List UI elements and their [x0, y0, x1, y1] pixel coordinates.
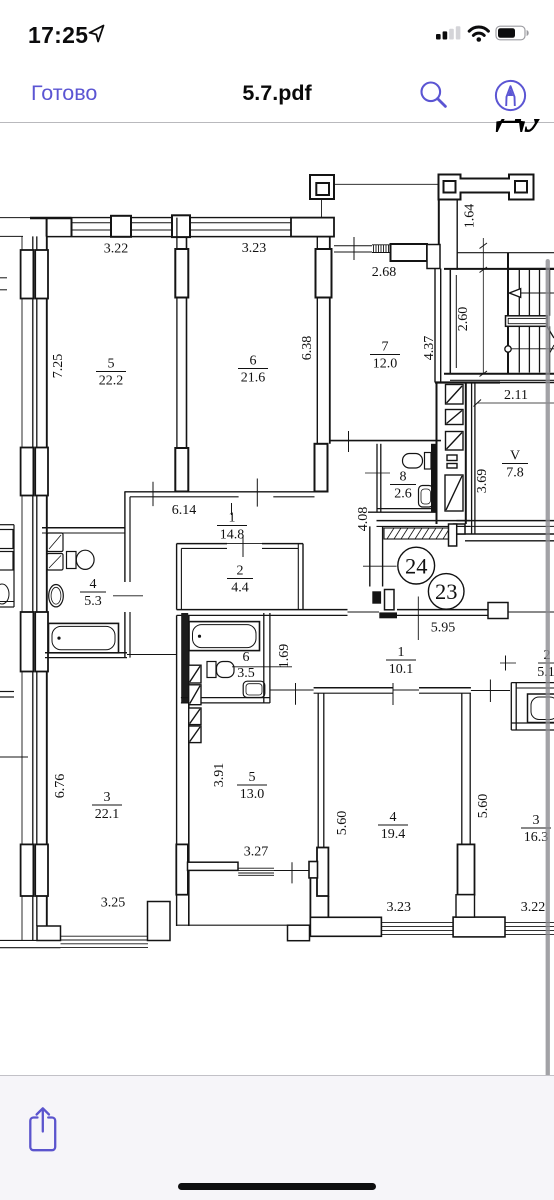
- door opening head room7 top: [334, 245, 372, 247]
- wall block top right of room 6: [291, 218, 334, 237]
- battery: [494, 22, 534, 44]
- svg-text:2.68: 2.68: [372, 265, 397, 280]
- svg-text:12.0: 12.0: [373, 357, 398, 372]
- room 3 bottom-left corner block: [37, 926, 61, 941]
- bathroom 8 right wall solid: [431, 444, 437, 512]
- window room 5 bottom: [238, 867, 274, 869]
- dim tick apt23: [500, 662, 516, 664]
- svg-text:1.69: 1.69: [277, 644, 292, 669]
- svg-text:V: V: [510, 449, 520, 464]
- black pier at hall: [372, 591, 381, 603]
- bathroom 8 left wall: [376, 444, 378, 512]
- window room 3 right: [505, 922, 554, 924]
- corner block top-left: [47, 218, 72, 237]
- lobby left wall: [369, 526, 371, 586]
- room V top wall right part: [500, 382, 554, 384]
- svg-text:6: 6: [243, 650, 250, 665]
- black pier horizontal: [379, 612, 397, 618]
- svg-text:2: 2: [237, 564, 244, 579]
- bathtub B6: [189, 622, 260, 651]
- bathtub apartment 23: [528, 694, 554, 723]
- door head room 3: [127, 654, 177, 656]
- cellular bars: [430, 20, 464, 44]
- home indicator: [178, 1183, 376, 1190]
- svg-text:3.5: 3.5: [237, 666, 255, 681]
- block right of room5 window: [309, 862, 318, 878]
- wall rooms 4/3: [461, 693, 463, 917]
- wall pier lobby top: [391, 244, 428, 261]
- wall between rooms 6 and 7: [316, 237, 318, 444]
- toilet WC6: [207, 662, 216, 678]
- iOS scroll indicator: [546, 259, 550, 1079]
- left wall window boxes row1: [21, 250, 34, 299]
- dim ticks 6.14: [152, 482, 154, 506]
- wall 5/6 pier box lower: [175, 448, 188, 492]
- hatch sill: [372, 245, 390, 253]
- wire top-left exterior wall top line: [0, 217, 30, 219]
- wall pier box room3 right: [176, 844, 188, 894]
- left wall window boxes row4: [21, 844, 34, 896]
- svg-text:3.91: 3.91: [212, 763, 227, 788]
- bathtub B4: [49, 623, 119, 652]
- left edge partial shapes: [0, 277, 7, 279]
- window room 4: [381, 922, 453, 924]
- svg-text:3.27: 3.27: [244, 845, 269, 860]
- svg-text:24: 24: [405, 554, 428, 579]
- share icon: [22, 1100, 66, 1152]
- dim line 3.5: [232, 666, 292, 668]
- dim line 1.64 / 2.60: [482, 238, 484, 374]
- svg-text:19.4: 19.4: [381, 827, 406, 842]
- tick 2.68: [353, 237, 355, 260]
- svg-text:6: 6: [250, 354, 257, 369]
- svg-text:5.95: 5.95: [431, 621, 456, 636]
- dim line 2.11: [477, 402, 554, 404]
- room V bottom wall: [453, 533, 554, 535]
- white mask over letter tops (nav overlap): [440, 113, 554, 119]
- wall top thick segment: [30, 217, 72, 220]
- location arrow icon: [85, 22, 109, 46]
- svg-text:4: 4: [390, 810, 397, 825]
- svg-text:10.1: 10.1: [389, 662, 414, 677]
- block between windows 4 and 3: [453, 917, 505, 937]
- svg-text:4.4: 4.4: [231, 581, 249, 596]
- svg-text:8: 8: [400, 470, 407, 485]
- room 2 top wall: [177, 543, 227, 545]
- svg-text:4: 4: [90, 577, 97, 592]
- wire column K1 to wall: [321, 199, 323, 218]
- svg-text:1: 1: [398, 645, 405, 660]
- svg-text:6.76: 6.76: [53, 774, 68, 799]
- apartment 23 bathroom walls: [510, 683, 512, 730]
- stair start circle: [505, 346, 511, 352]
- room 2 left wall: [176, 544, 178, 610]
- vent shafts lower stack: [189, 665, 201, 742]
- entrance threshold hatch: [384, 528, 449, 539]
- svg-text:2.11: 2.11: [504, 388, 528, 403]
- svg-text:22.2: 22.2: [99, 374, 124, 389]
- door ticks corridor: [295, 683, 297, 705]
- hall bottom wall left part: [177, 609, 348, 611]
- corridor bottom wall: [314, 687, 393, 689]
- svg-text:2.6: 2.6: [394, 487, 412, 502]
- fraction lines: [80, 355, 554, 829]
- markup icon: [494, 79, 527, 112]
- wall 6/7 pier box lower: [315, 444, 328, 492]
- svg-text:6.38: 6.38: [300, 336, 315, 361]
- wire column axis line: [334, 183, 439, 185]
- door leaf: [385, 590, 395, 610]
- wall 5/6 pier box upper: [175, 249, 188, 298]
- tick room7 door: [348, 431, 350, 452]
- apartment circle 24: [398, 547, 435, 584]
- svg-text:3.22: 3.22: [521, 900, 546, 915]
- dark wall segment near bath 6: [181, 613, 188, 703]
- toilet WC4: [67, 552, 77, 569]
- svg-text:5.3: 5.3: [84, 594, 102, 609]
- search icon: [417, 78, 451, 112]
- svg-text:3.25: 3.25: [101, 896, 126, 911]
- entrance lobby top wall: [377, 520, 471, 522]
- room 7 bottom wall: [330, 440, 441, 442]
- wall 6/7 pier box upper: [316, 249, 332, 298]
- svg-text:1: 1: [229, 511, 236, 526]
- wall band bottom lines: [0, 235, 23, 237]
- sink bath6: [243, 681, 265, 697]
- room 3 bottom-right block: [148, 902, 171, 941]
- svg-text:2.60: 2.60: [456, 307, 471, 332]
- window pier P2: [172, 215, 190, 237]
- svg-text:5.60: 5.60: [476, 794, 491, 819]
- bathroom 4 top wall: [42, 527, 125, 529]
- svg-text:23: 23: [435, 579, 458, 604]
- column K1 square-in-square: [310, 175, 334, 199]
- door gap bath 4: [123, 582, 133, 612]
- stair door pier: [449, 524, 457, 546]
- svg-text:3: 3: [104, 790, 111, 805]
- sink bathroom 8: [419, 486, 434, 508]
- rooms 5-6 bottom wall: [124, 491, 314, 493]
- partial big serif text top right: [499, 86, 554, 134]
- wall below stairs: [444, 373, 554, 375]
- svg-text:21.6: 21.6: [241, 371, 266, 386]
- svg-text:3.69: 3.69: [475, 469, 490, 494]
- room 2 right wall: [297, 544, 299, 610]
- svg-text:6.14: 6.14: [172, 503, 197, 518]
- apartment circle 23: [428, 574, 464, 610]
- balcony line: [177, 924, 310, 926]
- bathroom 4 right wall: [124, 492, 126, 658]
- wall chunk: [427, 245, 440, 269]
- staircase U1: [457, 252, 554, 254]
- svg-text:1.64: 1.64: [463, 204, 478, 229]
- stair stringer bar: [506, 316, 548, 327]
- room 7 right wall: [434, 269, 436, 383]
- svg-text:14.8: 14.8: [220, 528, 245, 543]
- svg-text:13.0: 13.0: [240, 787, 265, 802]
- room V left wall: [471, 383, 473, 534]
- window sill room 3: [61, 935, 149, 937]
- svg-text:5: 5: [108, 357, 115, 372]
- svg-text:5.60: 5.60: [335, 811, 350, 836]
- stair direction arrow: [518, 292, 554, 294]
- wall to apartment 23: [457, 520, 554, 522]
- svg-text:16.3: 16.3: [524, 830, 549, 845]
- room 4 left wall: [317, 693, 319, 848]
- shaft left wall: [436, 383, 438, 525]
- wifi icon: [466, 22, 492, 44]
- sink bath4: [49, 585, 64, 607]
- svg-text:5: 5: [249, 770, 256, 785]
- svg-text:7.25: 7.25: [51, 354, 66, 379]
- stair hall top wall: [444, 268, 507, 270]
- svg-text:3.22: 3.22: [104, 242, 129, 257]
- svg-text:4.37: 4.37: [422, 336, 437, 361]
- bathroom 6 right wall: [263, 613, 265, 703]
- wall column band below K2: [438, 200, 440, 247]
- toilet WC8: [425, 453, 432, 470]
- left wall window boxes row3: [21, 612, 34, 672]
- pier at room V door: [454, 524, 466, 534]
- room 4 window block left: [310, 917, 381, 936]
- shaft block top wall: [435, 381, 500, 383]
- column group K2-K3 dumbbell: [439, 175, 534, 200]
- window pier P1: [111, 216, 131, 237]
- dim tick bath 8: [365, 472, 390, 474]
- bathroom 6 bottom wall: [181, 697, 270, 699]
- tick room2 door: [242, 536, 244, 557]
- left exterior wall lines: [21, 236, 23, 940]
- dim line 4.08 vertical: [417, 597, 419, 641]
- room 5 bottom wall bar: [188, 862, 239, 870]
- svg-text:7.8: 7.8: [506, 466, 524, 481]
- svg-text:3: 3: [533, 813, 540, 828]
- window glazing top band: [72, 222, 112, 224]
- washer 2: [47, 554, 63, 571]
- svg-text:4.08: 4.08: [356, 507, 371, 532]
- left wall window boxes row2: [21, 448, 34, 496]
- separator under nav: [0, 122, 554, 123]
- hall bottom wall right part: [397, 609, 488, 611]
- wall between rooms 5 and 6: [176, 218, 178, 492]
- svg-text:3.23: 3.23: [386, 900, 411, 915]
- shaft right wall: [465, 383, 467, 525]
- svg-text:22.1: 22.1: [95, 807, 120, 822]
- bathroom 8 bottom wall: [377, 508, 437, 510]
- washing machine: [47, 533, 63, 552]
- svg-text:7: 7: [382, 340, 389, 355]
- svg-text:3.23: 3.23: [242, 241, 267, 256]
- vent shaft boxes: [445, 385, 463, 512]
- bathroom 4 bottom wall: [45, 652, 127, 654]
- long wall x176 from hall to bottom: [176, 615, 178, 926]
- stair hall left wall: [449, 270, 451, 374]
- pier box corridor: [488, 603, 508, 619]
